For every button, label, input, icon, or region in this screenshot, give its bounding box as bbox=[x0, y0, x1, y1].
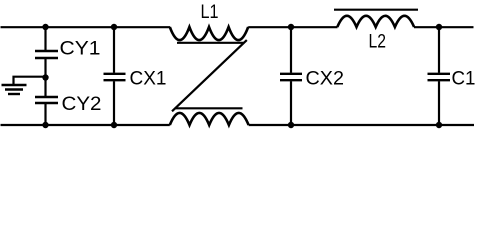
svg-text:CY1: CY1 bbox=[60, 37, 101, 59]
svg-text:C1: C1 bbox=[452, 67, 476, 89]
node bottom C1 bbox=[436, 122, 442, 128]
svg-text:L2: L2 bbox=[369, 31, 387, 53]
svg-text:L1: L1 bbox=[201, 1, 219, 23]
node top CX1 bbox=[111, 24, 117, 30]
inductor L2 core bar bbox=[334, 9, 418, 11]
node CY midpoint bbox=[42, 74, 48, 80]
inductor L1 coupling core top bar bbox=[177, 42, 244, 44]
node bottom CX2 bbox=[288, 122, 294, 128]
wire CX2 upper lead bbox=[290, 27, 292, 73]
capacitor CX2 bbox=[280, 74, 302, 80]
node top CX2 bbox=[288, 24, 294, 30]
svg-text:CX2: CX2 bbox=[306, 67, 345, 89]
inductor L1 coupling core diagonal bbox=[172, 40, 247, 111]
wire bottom line left segment bbox=[1, 124, 170, 126]
inductor L1 bottom winding bbox=[170, 113, 249, 125]
wire CX2 lower lead bbox=[290, 81, 292, 125]
inductor L1 coupling core bottom bar bbox=[175, 107, 243, 109]
node top C1 bbox=[436, 24, 442, 30]
wire top line middle segment bbox=[248, 26, 337, 28]
capacitor CX1 bbox=[104, 74, 126, 80]
wire CX1 lower lead bbox=[113, 81, 115, 125]
capacitor C1 bbox=[428, 74, 451, 80]
wire top line left segment bbox=[1, 26, 171, 28]
wire CX1 upper lead bbox=[113, 27, 115, 73]
node bottom CX1 bbox=[111, 122, 117, 128]
wire C1 lower lead bbox=[438, 81, 440, 125]
wire bottom line right segment bbox=[249, 124, 474, 126]
wire C1 upper lead bbox=[438, 27, 440, 73]
wire CY1 to CY2 bbox=[44, 59, 46, 96]
node top CY bbox=[42, 24, 48, 30]
inductor L1 top winding bbox=[170, 27, 248, 40]
svg-text:CY2: CY2 bbox=[62, 93, 102, 115]
wire CY2 lower lead bbox=[44, 104, 46, 125]
inductor L2 winding bbox=[337, 16, 414, 27]
wire top line right segment bbox=[414, 26, 474, 28]
node bottom CY bbox=[42, 122, 48, 128]
capacitor CY1 bbox=[35, 51, 58, 58]
svg-text:CX1: CX1 bbox=[130, 67, 167, 89]
wire CY branch upper lead bbox=[44, 27, 46, 50]
wire ground stub bbox=[14, 77, 46, 85]
capacitor CY2 bbox=[35, 97, 58, 103]
ground bbox=[2, 85, 27, 94]
